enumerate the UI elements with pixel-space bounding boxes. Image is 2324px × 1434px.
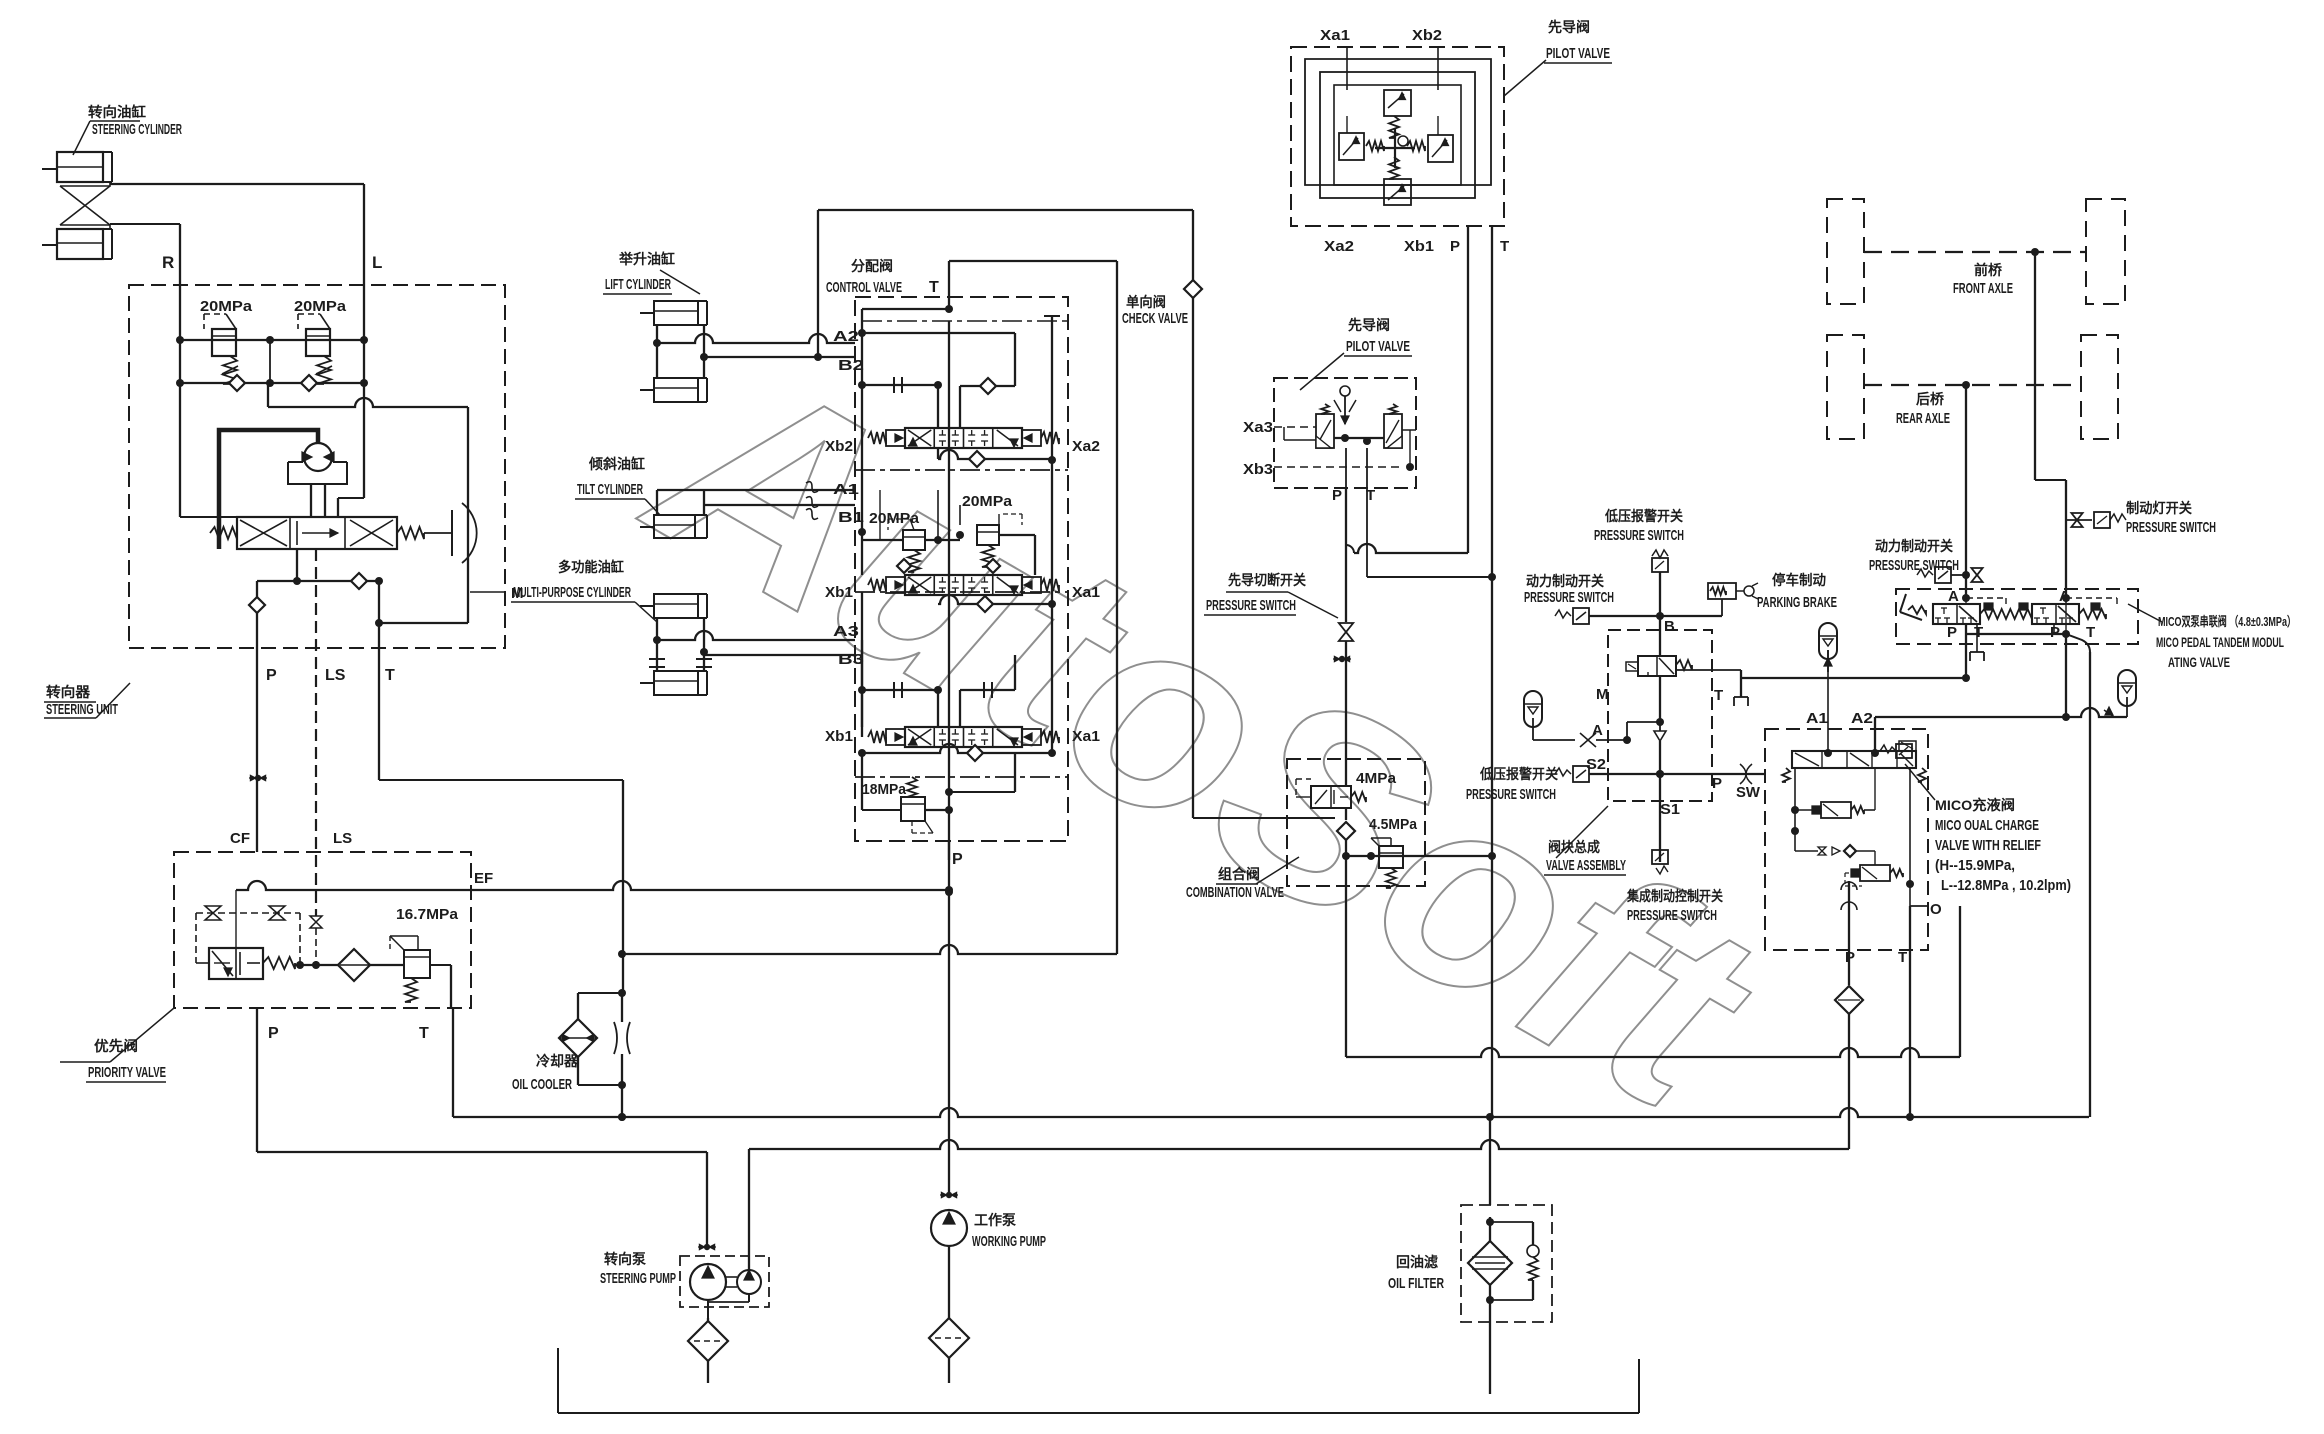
svg-text:T: T bbox=[929, 279, 939, 296]
relief valve 20MPa right bbox=[306, 329, 330, 356]
steering cylinder 1 bbox=[57, 152, 103, 182]
svg-text:4.5MPa: 4.5MPa bbox=[1369, 816, 1418, 833]
LS orifice bbox=[310, 916, 322, 928]
spool body Xb1/Xa1 bbox=[905, 727, 1022, 747]
pilot1 top element bbox=[1384, 90, 1411, 116]
svg-text:P: P bbox=[1332, 487, 1342, 504]
check valve bbox=[1184, 280, 1202, 298]
svg-text:制动灯开关: 制动灯开关 bbox=[2126, 500, 2192, 516]
svg-text:A: A bbox=[1948, 588, 1959, 605]
svg-text:A3: A3 bbox=[833, 623, 859, 640]
svg-text:20MPa: 20MPa bbox=[294, 298, 347, 315]
svg-text:Xb3: Xb3 bbox=[1243, 461, 1273, 478]
pedal mid spring bbox=[1980, 609, 2032, 619]
spring left Xb2 bbox=[868, 432, 886, 444]
control valve outer dashed box bbox=[855, 297, 1068, 841]
check ball left bbox=[229, 375, 245, 391]
steering cylinder 2 bbox=[57, 229, 103, 259]
spool body Xb2/Xa2 bbox=[905, 428, 1022, 448]
svg-text:Xb1: Xb1 bbox=[825, 728, 853, 745]
s3 cap lines bbox=[862, 689, 938, 691]
svg-text:倾斜油缸: 倾斜油缸 bbox=[588, 456, 645, 472]
front axle wheels bbox=[1827, 199, 1864, 304]
low pressure alarm switch symbol bbox=[1652, 550, 1668, 558]
Xa column top bbox=[1051, 316, 1053, 460]
svg-text:停车制动: 停车制动 bbox=[1772, 572, 1826, 588]
risers s1 bbox=[937, 385, 939, 428]
rear axle wheels bbox=[1827, 335, 1864, 439]
pilot1 center cross bbox=[1394, 128, 1396, 168]
priority EF line bbox=[235, 890, 237, 948]
working pump filter bbox=[929, 1318, 969, 1358]
priority main line bbox=[295, 964, 404, 966]
svg-text:R: R bbox=[162, 253, 174, 272]
svg-text:A: A bbox=[1592, 722, 1603, 739]
working pump bbox=[946, 1192, 952, 1198]
wire front brake through bbox=[2065, 598, 2067, 634]
svg-text:动力制动开关: 动力制动开关 bbox=[1875, 538, 1953, 554]
pilot cap Xa2 bbox=[1022, 430, 1041, 446]
priority spring bbox=[263, 957, 295, 969]
svg-text:PRESSURE SWITCH: PRESSURE SWITCH bbox=[1869, 557, 1959, 574]
svg-text:举升油缸: 举升油缸 bbox=[618, 251, 675, 267]
pedal right spring bbox=[2079, 609, 2106, 619]
gauge tap bbox=[1339, 656, 1345, 662]
wire B3 line bbox=[704, 654, 855, 656]
svg-text:PRESSURE SWITCH: PRESSURE SWITCH bbox=[1594, 527, 1684, 544]
spring right Xa1 bbox=[1041, 579, 1059, 591]
pilot1 inner rect C bbox=[1334, 85, 1461, 185]
svg-text:MICO PEDAL TANDEM MODUL: MICO PEDAL TANDEM MODUL bbox=[2156, 634, 2284, 650]
svg-text:集成制动控制开关: 集成制动控制开关 bbox=[1626, 888, 1723, 904]
Xa column low bbox=[1051, 604, 1053, 753]
pilot1 left element bbox=[1339, 133, 1364, 160]
section2 lower line bbox=[938, 595, 1052, 604]
svg-text:冷却器: 冷却器 bbox=[536, 1053, 579, 1069]
P column bbox=[948, 321, 950, 860]
pilot cap Xa1 bbox=[1022, 577, 1041, 593]
s3 wiring bbox=[861, 640, 863, 690]
power brake switch bbox=[1935, 567, 1951, 583]
pilot2 P T lines bbox=[1345, 448, 1347, 488]
svg-text:PILOT VALVE: PILOT VALVE bbox=[1346, 338, 1410, 355]
wire pedal right PT bbox=[2065, 598, 2067, 604]
parking brake symbol bbox=[1708, 583, 1736, 599]
svg-text:MICO双泵串联阀 （4.8±0.3MPa）: MICO双泵串联阀 （4.8±0.3MPa） bbox=[2158, 614, 2296, 629]
wire M line bbox=[1533, 739, 1575, 741]
svg-text:Xa1: Xa1 bbox=[1320, 27, 1350, 44]
svg-text:MICO充液阀: MICO充液阀 bbox=[1935, 797, 2015, 813]
svg-text:ATING VALVE: ATING VALVE bbox=[2168, 654, 2230, 670]
svg-text:先导阀: 先导阀 bbox=[1348, 317, 1390, 333]
wire comb out bbox=[1346, 855, 1492, 857]
s2 check balls bbox=[897, 559, 911, 573]
spool spring left bbox=[210, 527, 237, 539]
priority pilot orifices bbox=[196, 912, 300, 914]
svg-text:先导切断开关: 先导切断开关 bbox=[1228, 572, 1306, 588]
svg-text:WORKING PUMP: WORKING PUMP bbox=[972, 1233, 1046, 1250]
pilot2 internal dashes bbox=[1274, 426, 1316, 428]
steering L drop bbox=[363, 383, 365, 498]
steering pump filter bbox=[688, 1321, 728, 1361]
pilot1 bottom element bbox=[1384, 179, 1411, 205]
svg-text:PILOT VALVE: PILOT VALVE bbox=[1546, 45, 1610, 62]
priority filter bbox=[338, 949, 370, 981]
pilot1 right element bbox=[1428, 135, 1453, 162]
spool tails bbox=[296, 549, 298, 581]
front brake wire bbox=[2031, 248, 2039, 256]
svg-text:动力制动开关: 动力制动开关 bbox=[1526, 573, 1604, 589]
steering R drop bbox=[179, 383, 181, 517]
svg-text:Xb2: Xb2 bbox=[825, 438, 853, 455]
rear axle line bbox=[1864, 384, 2081, 386]
pilot1 risers bbox=[1346, 47, 1348, 90]
svg-text:REAR AXLE: REAR AXLE bbox=[1896, 410, 1950, 427]
cylinder cross link bbox=[60, 182, 110, 186]
svg-text:4MPa: 4MPa bbox=[1356, 770, 1397, 787]
integrated brake switch bbox=[1652, 850, 1668, 864]
svg-text:A2: A2 bbox=[833, 328, 859, 345]
oil cooler branch bbox=[622, 780, 624, 993]
section1 check bbox=[960, 385, 1015, 387]
SW needle bbox=[1740, 764, 1752, 784]
svg-text:(H--15.9MPa,: (H--15.9MPa, bbox=[1935, 857, 2015, 874]
svg-text:后桥: 后桥 bbox=[1916, 391, 1945, 407]
svg-text:L--12.8MPa , 10.2lpm): L--12.8MPa , 10.2lpm) bbox=[1941, 877, 2071, 894]
svg-text:分配阀: 分配阀 bbox=[851, 258, 893, 274]
section3 lower line bbox=[862, 744, 1052, 753]
wire A3 line bbox=[657, 631, 855, 640]
gauge tap on P line bbox=[255, 775, 261, 781]
spring left Xb1 bbox=[868, 579, 886, 591]
svg-text:20MPa: 20MPa bbox=[962, 493, 1013, 510]
svg-text:T: T bbox=[385, 667, 395, 684]
spring right Xa2 bbox=[1041, 432, 1059, 444]
svg-text:18MPa: 18MPa bbox=[862, 781, 907, 798]
charge T internal bbox=[1909, 768, 1911, 906]
svg-text:T: T bbox=[419, 1025, 429, 1042]
lift cylinder links bbox=[656, 325, 658, 378]
svg-text:P: P bbox=[952, 851, 963, 868]
svg-text:CF: CF bbox=[230, 830, 250, 847]
svg-text:Xa2: Xa2 bbox=[1072, 438, 1100, 455]
priority valve dashed box bbox=[174, 852, 471, 1008]
svg-text:16.7MPa: 16.7MPa bbox=[396, 906, 459, 923]
svg-text:O: O bbox=[1930, 901, 1942, 918]
svg-text:低压报警开关: 低压报警开关 bbox=[1604, 508, 1683, 524]
pilot cap Xb1 bbox=[886, 729, 905, 745]
svg-text:OIL COOLER: OIL COOLER bbox=[512, 1076, 572, 1093]
pedal pilot squares bbox=[1984, 603, 1993, 610]
wire pedal drain bbox=[1741, 677, 1966, 679]
wire P main bbox=[948, 841, 950, 892]
motor legs bbox=[310, 484, 312, 517]
svg-text:阀块总成: 阀块总成 bbox=[1548, 839, 1600, 855]
svg-text:STEERING PUMP: STEERING PUMP bbox=[600, 1270, 676, 1287]
svg-text:组合阀: 组合阀 bbox=[1218, 866, 1260, 882]
svg-text:TILT CYLINDER: TILT CYLINDER bbox=[577, 481, 643, 498]
wire filter to tank bbox=[1489, 1285, 1491, 1394]
oil cooler bbox=[559, 1019, 597, 1057]
svg-text:PRESSURE SWITCH: PRESSURE SWITCH bbox=[1627, 907, 1717, 924]
pilot cap Xb1 bbox=[886, 577, 905, 593]
pedal section right bbox=[2032, 604, 2079, 624]
wire L steering right line bbox=[110, 183, 364, 185]
svg-text:P: P bbox=[268, 1025, 279, 1042]
wire R steering left line bbox=[179, 224, 181, 340]
charge lower line bbox=[1795, 850, 1818, 852]
section1 cap line bbox=[862, 384, 938, 386]
charge P drop internal bbox=[1841, 882, 1857, 910]
svg-text:转向油缸: 转向油缸 bbox=[88, 104, 146, 120]
svg-text:MICO OUAL CHARGE: MICO OUAL CHARGE bbox=[1935, 817, 2039, 834]
steering T drop bbox=[378, 581, 380, 780]
s2 wiring bbox=[858, 528, 866, 536]
svg-text:Xb1: Xb1 bbox=[825, 584, 853, 601]
18MPa wiring bbox=[861, 753, 863, 810]
multi cyl coupler marks bbox=[649, 658, 665, 660]
wire comb to O bbox=[1345, 856, 1347, 1057]
steering unit dashed box bbox=[129, 285, 505, 648]
svg-text:P: P bbox=[1947, 624, 1957, 641]
lift cylinder lower bbox=[654, 378, 698, 402]
svg-text:前桥: 前桥 bbox=[1974, 262, 2003, 278]
accumulator assembly bbox=[1524, 691, 1542, 727]
brake light switch bbox=[2066, 519, 2092, 521]
svg-text:Xa3: Xa3 bbox=[1243, 419, 1273, 436]
pilot valve 2 dashed box bbox=[1274, 378, 1416, 488]
wire 4MPa internal bbox=[1345, 759, 1347, 786]
wire front brake to line bbox=[2065, 634, 2067, 717]
valve assembly dashed box bbox=[1608, 630, 1712, 801]
steering spool bbox=[237, 517, 397, 549]
watermark AutoSoft bbox=[604, 299, 1805, 1172]
check ball T bbox=[351, 573, 367, 589]
svg-text:转向泵: 转向泵 bbox=[604, 1251, 646, 1267]
svg-text:Xa2: Xa2 bbox=[1324, 238, 1354, 255]
wire A2 line bbox=[657, 334, 855, 343]
svg-text:T: T bbox=[1714, 687, 1723, 704]
steering pump bbox=[706, 1152, 708, 1247]
assembly solenoid valve bbox=[1638, 656, 1676, 676]
pilot valve 1 dashed box bbox=[1291, 47, 1504, 226]
front axle line bbox=[1864, 251, 2086, 253]
wire line2b priority-P to pump bbox=[257, 1151, 707, 1153]
svg-text:LIFT CYLINDER: LIFT CYLINDER bbox=[605, 276, 671, 293]
svg-text:VALVE ASSEMBLY: VALVE ASSEMBLY bbox=[1546, 857, 1626, 874]
svg-text:STEERING UNIT: STEERING UNIT bbox=[46, 701, 118, 718]
tilt cylinder bbox=[654, 515, 695, 538]
pilot shutoff valve bbox=[1339, 623, 1353, 632]
svg-text:P: P bbox=[266, 667, 277, 684]
pilot1 inner rect B bbox=[1320, 72, 1475, 198]
pilot1 P T lines bbox=[1467, 226, 1469, 553]
svg-text:P: P bbox=[1712, 775, 1722, 792]
svg-text:Xb2: Xb2 bbox=[1412, 27, 1442, 44]
Xa column mid bbox=[1051, 460, 1053, 604]
svg-text:A1: A1 bbox=[1806, 710, 1828, 727]
wire B line bbox=[1659, 572, 1661, 616]
accumulator charge bbox=[1819, 623, 1837, 659]
pilot2 joystick bbox=[1340, 386, 1350, 396]
steering wheel arc bbox=[424, 532, 452, 534]
svg-text:PRESSURE SWITCH: PRESSURE SWITCH bbox=[1524, 589, 1614, 606]
svg-text:Xb1: Xb1 bbox=[1404, 238, 1434, 255]
pilot2 right element bbox=[1384, 414, 1402, 448]
wire A2 charge line bbox=[1875, 708, 2127, 717]
wire line2 charge-P to steering pump bbox=[749, 1140, 1849, 1149]
steering LS dashed bbox=[315, 549, 317, 916]
MICO charge dashed box bbox=[1765, 729, 1928, 950]
wire pilot T return bbox=[1491, 577, 1493, 856]
svg-text:PRESSURE SWITCH: PRESSURE SWITCH bbox=[1466, 786, 1556, 803]
pedal lever bbox=[1900, 594, 1906, 612]
MICO pedal valve dashed box bbox=[1896, 589, 2138, 644]
charge pressure switch bbox=[1896, 744, 1912, 758]
svg-text:MULTI-PURPOSE CYLINDER: MULTI-PURPOSE CYLINDER bbox=[513, 584, 631, 601]
charge internals bbox=[1794, 768, 1796, 851]
svg-text:P: P bbox=[1450, 238, 1460, 255]
spring right Xa1 bbox=[1041, 731, 1059, 743]
svg-text:B1: B1 bbox=[838, 509, 864, 526]
svg-text:OIL FILTER: OIL FILTER bbox=[1388, 1275, 1444, 1292]
pilot1 inner rect A bbox=[1305, 59, 1491, 185]
wire solenoid down bbox=[1659, 676, 1661, 722]
svg-text:T: T bbox=[1500, 238, 1509, 255]
priority P exit bbox=[256, 1008, 258, 1152]
svg-text:PRESSURE SWITCH: PRESSURE SWITCH bbox=[1206, 597, 1296, 614]
pilot cap Xa1 bbox=[1022, 729, 1041, 745]
svg-text:T: T bbox=[1974, 624, 1983, 641]
cooler bypass restrictor bbox=[621, 993, 623, 1022]
svg-text:B3: B3 bbox=[838, 651, 864, 668]
relief 16.7MPa bbox=[404, 950, 430, 978]
svg-text:SW: SW bbox=[1736, 784, 1761, 801]
pilot2 left element bbox=[1316, 414, 1334, 448]
svg-text:CHECK VALVE: CHECK VALVE bbox=[1122, 310, 1188, 327]
gerotor motor bold link bbox=[219, 430, 318, 549]
power brake switch symbol 2 bbox=[1573, 608, 1589, 624]
pedal A dots bbox=[1962, 594, 1970, 602]
steering pump box bbox=[680, 1256, 769, 1307]
feedback loop wire bbox=[267, 383, 269, 407]
gerotor motor bbox=[304, 443, 332, 471]
check valve to combination bbox=[1193, 817, 1335, 819]
charge lower solenoid bbox=[1860, 865, 1890, 881]
svg-text:PRESSURE SWITCH: PRESSURE SWITCH bbox=[2126, 519, 2216, 536]
check ball P bbox=[249, 597, 265, 613]
svg-text:CONTROL VALVE: CONTROL VALVE bbox=[826, 279, 902, 296]
svg-text:先导阀: 先导阀 bbox=[1548, 19, 1590, 35]
wire B1 line bbox=[704, 504, 855, 506]
svg-text:A1: A1 bbox=[833, 481, 859, 498]
svg-text:回油滤: 回油滤 bbox=[1396, 1254, 1438, 1270]
pilot cap Xb2 bbox=[886, 430, 905, 446]
svg-text:COMBINATION VALVE: COMBINATION VALVE bbox=[1186, 884, 1284, 901]
spring left Xb1 bbox=[868, 731, 886, 743]
svg-text:PRIORITY VALVE: PRIORITY VALVE bbox=[88, 1064, 166, 1081]
multi cylinder upper bbox=[654, 594, 698, 618]
hose break marks bbox=[806, 482, 818, 493]
pedal section left bbox=[1933, 604, 1980, 624]
rear brake wire bbox=[1962, 381, 1970, 389]
S2 switch bbox=[1573, 766, 1589, 782]
comb check bbox=[1337, 822, 1355, 840]
section divider 3 bbox=[855, 776, 1068, 778]
svg-text:Xa1: Xa1 bbox=[1072, 584, 1100, 601]
section1 lower check line bbox=[938, 450, 1052, 459]
A column bbox=[861, 321, 863, 446]
accumulator pedal bbox=[2118, 670, 2136, 706]
svg-text:T: T bbox=[2086, 624, 2095, 641]
check ball right bbox=[301, 375, 317, 391]
wire S1 down bbox=[1659, 774, 1661, 862]
wire relief row bbox=[180, 339, 364, 341]
svg-text:T: T bbox=[1898, 949, 1907, 966]
svg-text:A2: A2 bbox=[1851, 710, 1873, 727]
svg-text:B: B bbox=[1664, 618, 1675, 635]
svg-text:S2: S2 bbox=[1586, 756, 1606, 773]
check valve row bbox=[180, 382, 364, 384]
svg-text:转向器: 转向器 bbox=[46, 684, 91, 700]
multi cylinder links bbox=[656, 618, 658, 671]
wire pedal left P bbox=[1965, 598, 1967, 604]
section divider 2 bbox=[855, 591, 1068, 593]
wire A1 line bbox=[657, 489, 855, 491]
section divider 1 bbox=[855, 469, 1068, 471]
wire B2 line bbox=[704, 356, 855, 358]
wire charge P out bbox=[1848, 950, 1850, 985]
svg-text:LS: LS bbox=[333, 830, 352, 847]
assembly solenoid T drain bbox=[1676, 669, 1741, 671]
charge spool bbox=[1792, 751, 1916, 768]
multi cylinder lower bbox=[654, 671, 698, 695]
tank line bbox=[557, 1348, 559, 1413]
oil filter bbox=[1468, 1241, 1512, 1285]
combination valve dashed box bbox=[1287, 759, 1425, 886]
svg-text:STEERING CYLINDER: STEERING CYLINDER bbox=[92, 121, 182, 138]
wire parking to B bbox=[1721, 599, 1723, 616]
wire A2 riser bbox=[1874, 717, 1876, 751]
section1 A2 internal bbox=[858, 329, 866, 337]
wire O-line bbox=[1346, 1048, 1960, 1057]
spool spring right bbox=[397, 527, 424, 539]
svg-text:M: M bbox=[1596, 686, 1609, 703]
svg-text:优先阀: 优先阀 bbox=[94, 1038, 138, 1054]
svg-text:Xa1: Xa1 bbox=[1072, 728, 1100, 745]
wire T to cooler bbox=[949, 260, 1117, 262]
wire pilot P down bbox=[1345, 641, 1347, 759]
svg-text:EF: EF bbox=[474, 870, 493, 887]
check valve feed line bbox=[818, 209, 1193, 211]
filter bypass bbox=[1489, 1217, 1491, 1241]
priority spool bbox=[209, 948, 263, 979]
spool body Xb1/Xa1 bbox=[905, 575, 1022, 595]
svg-text:FRONT AXLE: FRONT AXLE bbox=[1953, 280, 2013, 297]
svg-text:P: P bbox=[2050, 624, 2060, 641]
svg-text:低压报警开关: 低压报警开关 bbox=[1479, 766, 1558, 782]
wire S2-P-SW line bbox=[1589, 773, 1765, 775]
svg-text:B2: B2 bbox=[838, 357, 864, 374]
relief valve 20MPa left bbox=[212, 329, 236, 356]
control valve inner dashdot top bbox=[862, 320, 1068, 322]
svg-text:单向阀: 单向阀 bbox=[1126, 294, 1166, 310]
priority T drop bbox=[450, 965, 452, 1008]
steering P branch bbox=[256, 581, 258, 598]
svg-text:S1: S1 bbox=[1660, 801, 1680, 818]
svg-text:工作泵: 工作泵 bbox=[974, 1212, 1016, 1228]
wire charge T out bbox=[1909, 906, 1911, 1117]
